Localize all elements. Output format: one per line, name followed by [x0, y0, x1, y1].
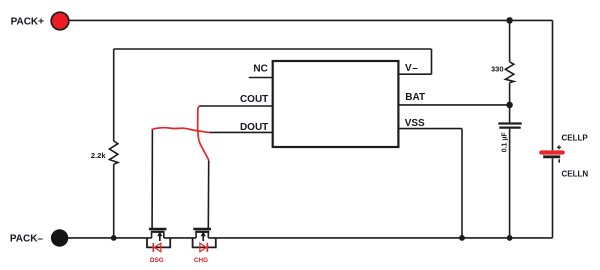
- junction node: bottom rail / C1: [507, 235, 513, 241]
- transistor Q1 DSG body U: [147, 238, 170, 248]
- transistor Q1 DSG channel bar: [151, 231, 165, 233]
- svg-text:330: 330: [491, 64, 504, 73]
- wire: PACK+ top rail: [69, 19, 553, 21]
- wire: V- rail horizontal (left vertical top to V- drop): [114, 48, 432, 50]
- terminal PACK+ (red): [51, 12, 69, 30]
- wire: R2 to BAT node: [509, 83, 511, 105]
- transistor Q1 DSG gate plate: [149, 228, 167, 230]
- terminal PACK- (black): [51, 229, 68, 246]
- transistor Q2 CHG body U: [193, 238, 216, 248]
- battery - mark: [558, 159, 560, 162]
- svg-text:DOUT: DOUT: [240, 122, 268, 133]
- transistor Q2 CHG gate plate: [193, 228, 211, 230]
- diode D1 (DSG body diode, red): [153, 243, 161, 252]
- wire: bottom rail between Q1 and Q2: [164, 237, 196, 239]
- wire: DOUT pin (black portion): [209, 131, 273, 133]
- battery cell positive plate (red): [541, 150, 562, 154]
- resistor R1 2.2k zigzag: [110, 141, 118, 164]
- wire: C1 to bottom rail: [509, 129, 511, 238]
- wire: BAT node to C1 top plate: [509, 105, 511, 123]
- transistor Q2 CHG arrow: [201, 231, 206, 241]
- junction node: bottom rail / R1: [111, 235, 117, 241]
- wire: right rail lower (CELLN plate to bottom rail): [552, 158, 554, 238]
- wire: left vertical above R1: [113, 49, 115, 141]
- wire: BAT pin to R2/C1 node: [398, 104, 509, 106]
- wire: COUT to Q2 gate (red hand-drawn): [198, 106, 209, 160]
- wire: bottom rail right segment: [208, 237, 552, 239]
- wire: DOUT to Q1 gate (red hand-drawn): [152, 128, 209, 133]
- svg-text:PACK–: PACK–: [10, 234, 44, 245]
- wire: V- drop vertical: [431, 49, 433, 74]
- diode D2 (CHG body diode, red): [200, 243, 208, 252]
- wire: pin V- stub: [398, 73, 431, 75]
- IC U1 body: [273, 61, 399, 147]
- svg-text:CELLP: CELLP: [562, 134, 589, 143]
- pin NC stub: [249, 77, 273, 79]
- svg-text:0.1 µF: 0.1 µF: [501, 132, 508, 153]
- transistor Q1 DSG arrow: [157, 231, 162, 241]
- junction node: bottom rail / VSS: [459, 235, 465, 241]
- capacitor C1 top plate: [498, 122, 521, 124]
- svg-text:PACK+: PACK+: [11, 17, 45, 28]
- transistor Q2 CHG channel bar: [195, 231, 209, 233]
- svg-text:2.2k: 2.2k: [91, 151, 106, 160]
- transistor Q2 CHG source/drain stubs: [196, 233, 208, 238]
- junction node: top rail / R2: [506, 17, 513, 24]
- wire: top rail to R2: [509, 20, 511, 61]
- wire: COUT pin (black portion): [199, 105, 273, 107]
- wire: VSS vertical to bottom rail: [461, 129, 463, 238]
- svg-text:V–: V–: [405, 63, 418, 74]
- svg-text:CELLN: CELLN: [562, 169, 589, 178]
- wire: VSS pin horizontal: [398, 128, 462, 130]
- transistor Q2 CHG gate wire: [207, 160, 209, 228]
- wire: PACK- bottom rail left segment: [68, 237, 152, 239]
- battery cell negative plate: [543, 155, 560, 158]
- svg-text:NC: NC: [253, 64, 267, 75]
- wire: right rail upper (top rail to CELLP plate): [552, 20, 554, 150]
- capacitor C1 bottom plate: [499, 126, 520, 128]
- resistor R2 330 zigzag: [505, 62, 513, 83]
- wire: R1 to bottom rail: [113, 164, 115, 238]
- svg-text:COUT: COUT: [240, 94, 268, 105]
- battery + mark: [557, 145, 561, 149]
- svg-text:CHG: CHG: [194, 257, 208, 264]
- svg-text:VSS: VSS: [405, 118, 425, 129]
- transistor Q1 DSG source/drain stubs: [152, 233, 164, 238]
- svg-text:DSG: DSG: [150, 257, 164, 264]
- junction node: BAT / R2 / C1: [506, 102, 513, 109]
- transistor Q1 DSG gate wire: [151, 129, 153, 228]
- svg-text:BAT: BAT: [405, 92, 425, 103]
